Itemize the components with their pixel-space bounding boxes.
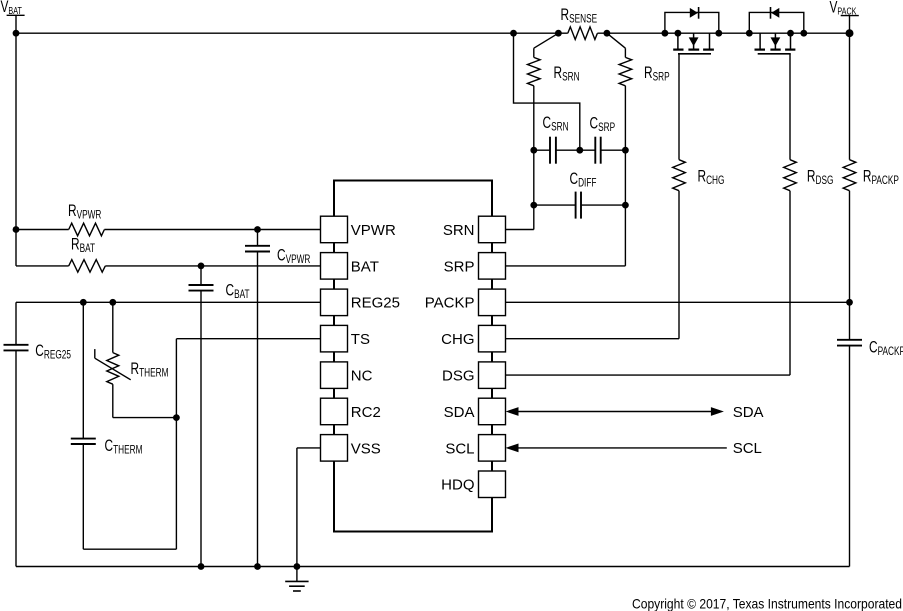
svg-text:RBAT: RBAT: [71, 236, 95, 256]
svg-text:REG25: REG25: [351, 295, 400, 312]
svg-text:RSRP: RSRP: [644, 64, 670, 84]
svg-text:CSRP: CSRP: [590, 115, 616, 135]
svg-text:SCL: SCL: [733, 440, 762, 457]
svg-text:RSRN: RSRN: [554, 64, 580, 84]
svg-text:CHG: CHG: [441, 331, 474, 348]
svg-text:SDA: SDA: [733, 404, 764, 421]
svg-text:PACKP: PACKP: [425, 295, 475, 312]
svg-text:SRN: SRN: [443, 222, 475, 239]
svg-text:CREG25: CREG25: [35, 342, 71, 362]
svg-text:SDA: SDA: [444, 404, 475, 421]
svg-text:VSS: VSS: [351, 440, 381, 457]
svg-text:RC2: RC2: [351, 404, 381, 421]
svg-text:CPACKP: CPACKP: [869, 339, 903, 359]
svg-text:RVPWR: RVPWR: [68, 202, 101, 222]
svg-text:SCL: SCL: [445, 440, 474, 457]
svg-text:SRP: SRP: [444, 258, 475, 275]
svg-text:NC: NC: [351, 368, 373, 385]
svg-text:RTHERM: RTHERM: [131, 360, 169, 380]
svg-text:CVPWR: CVPWR: [277, 247, 310, 267]
svg-text:VPWR: VPWR: [351, 222, 396, 239]
svg-text:CTHERM: CTHERM: [105, 437, 143, 457]
svg-text:CBAT: CBAT: [226, 282, 250, 302]
svg-text:CSRN: CSRN: [543, 114, 569, 134]
svg-text:VPACK: VPACK: [830, 0, 857, 17]
svg-text:BAT: BAT: [351, 258, 379, 275]
svg-text:RSENSE: RSENSE: [561, 6, 598, 26]
svg-text:RDSG: RDSG: [807, 168, 834, 188]
svg-text:DSG: DSG: [442, 368, 475, 385]
svg-text:CDIFF: CDIFF: [570, 170, 597, 190]
svg-text:TS: TS: [351, 331, 370, 348]
svg-text:HDQ: HDQ: [441, 477, 474, 494]
svg-text:VBAT: VBAT: [1, 0, 23, 17]
svg-text:RCHG: RCHG: [698, 168, 725, 188]
svg-text:RPACKP: RPACKP: [863, 168, 899, 188]
svg-text:Copyright © 2017, Texas Instru: Copyright © 2017, Texas Instruments Inco…: [632, 596, 902, 611]
